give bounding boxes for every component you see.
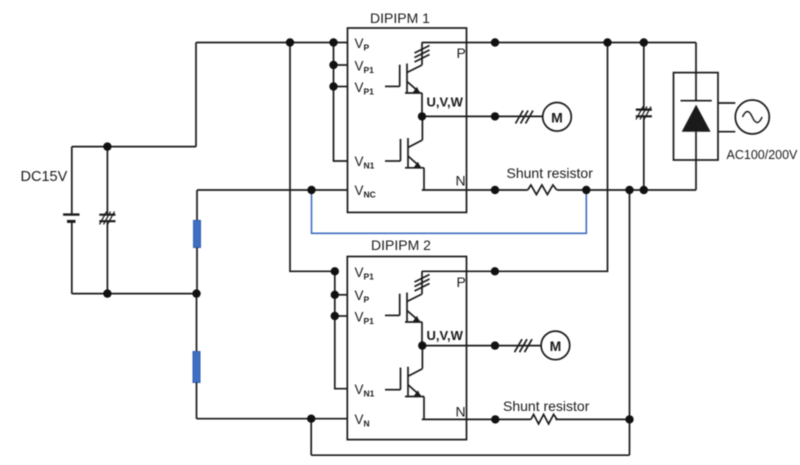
- wire: +15V top rail from left riser to DIPIPM1 VP: [196, 42, 348, 44]
- capacitor C1 (15V filter, hatched electrolytic): [99, 147, 115, 294]
- svg-text:Shunt resistor: Shunt resistor: [507, 165, 594, 181]
- svg-text:P: P: [457, 45, 466, 61]
- svg-text:VN: VN: [355, 412, 370, 429]
- svg-text:VN1: VN1: [355, 382, 375, 399]
- wire: VN line into DIPIPM2: [197, 418, 348, 420]
- wire: triple slash on Q3 collector (3-phase): [415, 275, 430, 292]
- wire: P bus from DIPIPM1 down to DIPIPM2 P: [422, 43, 608, 272]
- node: VNC / N1 rail junctions: [307, 186, 315, 194]
- node: U,V,W junction DIPIPM1: [418, 112, 426, 120]
- capacitor C2 (DC bus, hatched electrolytic): [636, 43, 652, 191]
- wire: riser from top rail to DIPIPM2 VP1: [290, 43, 335, 272]
- svg-text:P: P: [457, 274, 466, 290]
- wire: DIPIPM2 VP1 pin stub (lower): [335, 315, 348, 317]
- motor M1: [543, 103, 572, 132]
- node: DIPIPM1 VP1 pins: [329, 61, 337, 69]
- motor M2: [541, 331, 570, 360]
- svg-text:VP: VP: [355, 36, 370, 53]
- wire: VNC net horizontal to DIPIPM1: [197, 189, 348, 191]
- svg-text:N: N: [456, 173, 466, 189]
- svg-text:VP1: VP1: [355, 265, 375, 282]
- wire: N line of DIPIPM1 (shunt net): [422, 189, 696, 191]
- svg-text:VN1: VN1: [355, 154, 375, 171]
- wire: blue link VNC to shunt1 output: [312, 190, 587, 233]
- transistor Q1 (DIPIPM1 high-side IGBT): [385, 43, 422, 117]
- wire: U,V,W output of DIPIPM1 to motor: [422, 115, 543, 117]
- wire: P rail (DIPIPM1 collector to rectifier): [422, 42, 696, 44]
- rectifier D1 (diode bridge box): [674, 43, 719, 191]
- svg-text:AC100/200V: AC100/200V: [727, 148, 799, 162]
- wire: DC15V top lead: [72, 146, 196, 148]
- svg-text:M: M: [550, 338, 562, 354]
- wire: triple slash on motor2 line: [515, 339, 533, 352]
- svg-text:U,V,W: U,V,W: [427, 328, 464, 343]
- svg-text:M: M: [551, 109, 563, 125]
- module U1 DIPIPM 1 box: [348, 28, 467, 212]
- node: DIPIPM2 P terminal: [491, 267, 499, 275]
- node: top rail junctions: [286, 38, 294, 46]
- svg-text:N: N: [456, 404, 466, 420]
- wire: left riser of 15V supply: [195, 43, 197, 147]
- svg-text:DIPIPM 2: DIPIPM 2: [371, 237, 431, 253]
- svg-text:DIPIPM 1: DIPIPM 1: [370, 10, 430, 26]
- svg-text:VP: VP: [355, 288, 370, 305]
- svg-text:VP1: VP1: [355, 310, 375, 327]
- shunt resistor RS1: [528, 185, 557, 195]
- AC source V1: [718, 100, 769, 134]
- wire: VP1 pin stub (upper): [334, 64, 348, 66]
- module U2 DIPIPM 2 box: [347, 257, 466, 440]
- node: shunt2 terminals: [491, 415, 499, 423]
- svg-text:DC15V: DC15V: [21, 169, 68, 185]
- shunt resistor RS2: [531, 414, 557, 424]
- transistor Q2 (DIPIPM1 low-side IGBT): [385, 116, 424, 190]
- node: DIPIPM2 pin junctions: [331, 267, 339, 275]
- wire: DC15V bottom rail: [72, 293, 197, 295]
- wire: VN drop to bottom rail: [310, 419, 312, 456]
- wire: triple slash on Q1 collector (3-phase): [415, 46, 430, 63]
- svg-text:VP1: VP1: [355, 80, 375, 97]
- wire: VP1 pin stub (lower): [334, 86, 348, 88]
- svg-text:VNC: VNC: [355, 183, 376, 200]
- wire: right drop from N1 net to bottom rail: [629, 190, 631, 455]
- node: U,V,W junction DIPIPM2: [418, 341, 426, 349]
- wire: DIPIPM2 left pin bus: [335, 271, 348, 388]
- svg-text:VP1: VP1: [355, 59, 375, 76]
- battery DC15V: [63, 147, 79, 294]
- resistor R2 (blue, DC- to VN of DIPIPM2): [193, 294, 200, 419]
- transistor Q4 (DIPIPM2 low-side IGBT): [385, 346, 424, 420]
- node: 15V supply junctions: [103, 142, 111, 150]
- wire: DIPIPM1 left pin bus: [334, 43, 348, 162]
- svg-text:Shunt resistor: Shunt resistor: [503, 398, 590, 414]
- wire: N line of DIPIPM2 (shunt net): [422, 418, 630, 420]
- wire: DIPIPM2 VP pin stub: [335, 294, 348, 296]
- wire: U,V,W output of DIPIPM2 to motor: [422, 345, 541, 347]
- svg-text:U,V,W: U,V,W: [427, 95, 464, 110]
- transistor Q3 (DIPIPM2 high-side IGBT): [385, 271, 422, 345]
- wire: triple slash on motor1 line: [516, 111, 534, 124]
- resistor R1 (blue, VNC to DC-): [194, 190, 201, 294]
- node: VN junction: [307, 415, 315, 423]
- wire: bottom return rail: [311, 454, 629, 456]
